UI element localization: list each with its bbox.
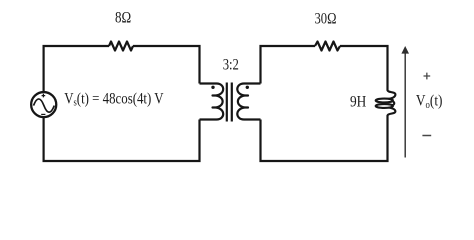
inductor L 9H loop 1: [376, 99, 393, 103]
transformer primary winding (with stubs): [200, 84, 224, 120]
wire left-loop top-left (source top to resistor): [44, 46, 109, 92]
resistor R2 30ohm zigzag: [315, 42, 340, 51]
plus label: [424, 73, 431, 80]
wire right-loop bottom (inductor bottom to secondary bottom stub): [261, 115, 388, 161]
svg-text:8Ω: 8Ω: [115, 10, 131, 27]
inductor L 9H right connector bump: [392, 101, 394, 105]
minus label: [422, 135, 431, 137]
wire left-loop bottom (transformer primary bottom stub to source bottom): [44, 117, 200, 161]
resistor R1 8ohm zigzag: [109, 42, 133, 51]
transformer polarity dot primary: [211, 86, 214, 89]
voltage source minus mark: [41, 113, 45, 115]
svg-text:30Ω: 30Ω: [315, 11, 337, 28]
inductor L 9H entry hook: [388, 90, 396, 99]
voltage source Vs circle: [31, 92, 56, 117]
svg-text:Vo(t): Vo(t): [416, 93, 443, 111]
svg-text:9H: 9H: [350, 93, 367, 110]
inductor L 9H loop 2: [376, 104, 393, 108]
svg-text:Vs(t) = 48cos(4t) V: Vs(t) = 48cos(4t) V: [64, 90, 164, 108]
transformer core line right: [231, 83, 233, 122]
transformer polarity dot secondary: [246, 86, 249, 89]
transformer core line left: [226, 83, 228, 122]
wire left-loop top-right (resistor to transformer primary stub): [133, 46, 200, 84]
inductor L 9H exit hook: [388, 108, 396, 116]
output voltage arrow line: [404, 53, 406, 158]
wire right-loop top-right (resistor to inductor top): [340, 46, 388, 91]
voltage source plus mark: [42, 94, 46, 98]
output voltage arrow head: [401, 46, 409, 54]
voltage source sine wave: [34, 99, 55, 112]
transformer secondary winding (with stubs): [237, 84, 260, 120]
wire right-loop top-left (secondary stub up to resistor): [261, 46, 316, 84]
svg-text:3:2: 3:2: [223, 57, 239, 74]
